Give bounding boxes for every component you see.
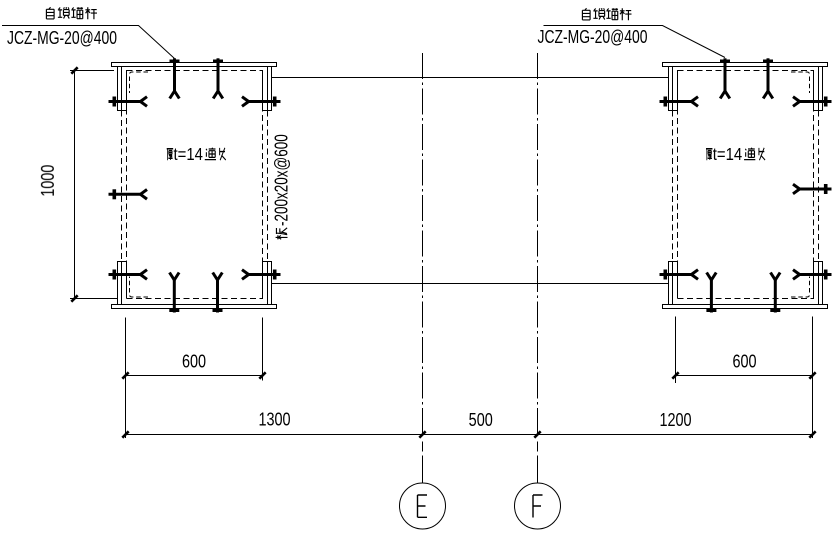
svg-text:1200: 1200 bbox=[659, 409, 691, 430]
top anchor plate bbox=[112, 63, 277, 67]
axis F center line bbox=[537, 53, 539, 435]
axis letter F bbox=[533, 495, 543, 518]
dimension text 1000 bbox=[37, 165, 58, 197]
web left bottom bracket bbox=[669, 262, 678, 305]
anchor bolt bottom-1 left structure bbox=[173, 280, 176, 313]
dimension line 600 right bbox=[676, 375, 813, 377]
embedded plate outline (hidden) bbox=[127, 71, 263, 299]
anchor bolt right-bottom right structure bbox=[799, 273, 832, 276]
note left: t=14 bbox=[174, 145, 203, 164]
axis bubble F bbox=[515, 483, 561, 529]
svg-text:600: 600 bbox=[732, 351, 756, 372]
dimension text 1300 bbox=[258, 409, 290, 430]
hidden web line left bbox=[121, 111, 123, 262]
bottom anchor plate bbox=[663, 305, 828, 309]
axis letter E bbox=[418, 495, 428, 517]
label left: JCZ-MG-20@400 bbox=[7, 28, 117, 48]
anchor bolt left-mid left structure bbox=[109, 193, 142, 196]
axis E center line bbox=[422, 53, 424, 435]
note rotated: -200x20x@600 bbox=[272, 134, 293, 226]
left structure inner corner mark BL bbox=[130, 277, 149, 298]
web left top bracket bbox=[669, 67, 678, 111]
anchor bolt right-top left structure bbox=[248, 100, 281, 103]
bottom connecting line bbox=[272, 283, 669, 285]
note right: t=14 bbox=[713, 145, 742, 164]
label left char 2 (suo) bbox=[58, 7, 69, 18]
anchor bolt bottom-2 left structure bbox=[216, 280, 219, 313]
note right char (chang) bbox=[759, 148, 765, 160]
svg-text:t=14: t=14 bbox=[713, 145, 742, 164]
label left char 4 (gan) bbox=[85, 7, 97, 19]
extension line top-left bbox=[70, 70, 114, 72]
anchor bolt right-bottom left structure bbox=[248, 273, 281, 276]
hidden web line right bbox=[267, 111, 269, 262]
top anchor plate bbox=[663, 63, 828, 67]
anchor bolt left-top right structure bbox=[660, 100, 693, 103]
svg-text:500: 500 bbox=[469, 409, 493, 430]
leader line left label bbox=[2, 26, 175, 59]
web left bottom bracket bbox=[118, 262, 127, 305]
note right char (hou) bbox=[706, 149, 712, 161]
svg-text:JCZ-MG-20@400: JCZ-MG-20@400 bbox=[7, 28, 117, 48]
extension line bottom-left bbox=[70, 298, 118, 300]
label right char 1 (zi) bbox=[582, 8, 590, 20]
note right char (tong) bbox=[744, 148, 755, 160]
anchor bolt right-top right structure bbox=[799, 100, 832, 103]
left structure inner corner mark TL bbox=[130, 72, 149, 93]
hidden web line left bbox=[672, 111, 674, 262]
anchor bolt top-2 left structure bbox=[217, 58, 220, 91]
dimension line 1000 bbox=[74, 71, 76, 299]
main dimension line bbox=[126, 434, 813, 436]
label right char 3 (mao) bbox=[606, 8, 618, 20]
right structure inner corner mark BR bbox=[791, 277, 810, 298]
label right: JCZ-MG-20@400 bbox=[538, 27, 648, 47]
label left char 3 (mao) bbox=[71, 7, 83, 19]
extension lines 600 left bbox=[125, 318, 127, 439]
label left char 1 (zi) bbox=[46, 7, 54, 19]
web right bottom bracket bbox=[814, 262, 823, 305]
label right char 4 (gan) bbox=[620, 8, 632, 20]
bottom anchor plate bbox=[112, 305, 277, 309]
web left top bracket bbox=[118, 67, 127, 111]
anchor bolt top-1 right structure bbox=[724, 58, 727, 91]
anchor bolt top-1 left structure bbox=[173, 58, 176, 91]
dimension text 600 right bbox=[732, 351, 756, 372]
label right char 2 (suo) bbox=[593, 8, 604, 19]
dimension line 600 left bbox=[126, 375, 263, 377]
svg-text:1300: 1300 bbox=[258, 409, 290, 430]
anchor bolt left-top left structure bbox=[109, 100, 142, 103]
web right bottom bracket bbox=[263, 262, 272, 305]
svg-text:-200x20x@600: -200x20x@600 bbox=[272, 134, 293, 226]
anchor bolt bottom-1 right structure bbox=[710, 280, 713, 313]
anchor bolt right-mid right structure bbox=[799, 188, 832, 191]
dimension text 1200 bbox=[659, 409, 691, 430]
note rotated char (ban) bbox=[272, 134, 293, 239]
anchor bolt bottom-2 right structure bbox=[774, 280, 777, 313]
svg-text:t=14: t=14 bbox=[174, 145, 203, 164]
anchor bolt top-2 right structure bbox=[767, 58, 770, 91]
svg-text:600: 600 bbox=[182, 351, 206, 372]
dimension text 500 bbox=[469, 409, 493, 430]
extension lines 600 right bbox=[675, 317, 677, 384]
axis bubble E bbox=[400, 483, 446, 529]
svg-text:1000: 1000 bbox=[37, 165, 58, 197]
leader line right label bbox=[544, 26, 726, 58]
embedded plate outline (hidden) bbox=[678, 71, 814, 299]
note left char (tong) bbox=[205, 148, 216, 160]
top connecting line bbox=[272, 77, 669, 79]
web right top bracket bbox=[263, 67, 272, 111]
hidden web line right bbox=[818, 111, 820, 262]
right structure inner corner mark TR bbox=[791, 72, 810, 93]
anchor bolt left-bottom right structure bbox=[660, 273, 693, 276]
svg-text:JCZ-MG-20@400: JCZ-MG-20@400 bbox=[538, 27, 648, 47]
dimension text 600 left bbox=[182, 351, 206, 372]
note left char (chang) bbox=[220, 148, 226, 160]
web right top bracket bbox=[814, 67, 823, 111]
anchor bolt left-bottom left structure bbox=[109, 273, 142, 276]
note left char (hou) bbox=[167, 149, 173, 161]
